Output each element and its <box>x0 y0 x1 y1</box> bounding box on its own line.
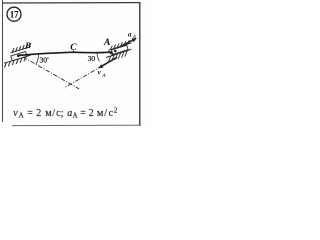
slider block B <box>11 52 27 61</box>
frame bottom border <box>12 124 140 126</box>
dash-dot axis line from A to instant centre <box>64 57 117 88</box>
dash-dot axis line from B to instant centre <box>23 57 79 89</box>
frame top border <box>2 2 140 4</box>
svg-text:30: 30 <box>88 54 96 63</box>
frame left border <box>2 0 4 122</box>
pin at B <box>17 54 20 57</box>
angle arc 30 deg at A <box>97 52 99 61</box>
acceleration vector aA head <box>132 38 137 42</box>
svg-text:30°: 30° <box>40 55 50 64</box>
frame right border <box>139 2 141 126</box>
svg-text:A: A <box>101 73 106 79</box>
slider block A <box>111 45 128 54</box>
svg-text:A: A <box>103 38 110 48</box>
hatching below lower rail at B <box>4 57 26 68</box>
guide slot upper rail at B <box>11 47 29 53</box>
svg-text:B: B <box>24 40 31 50</box>
pin at A <box>114 50 117 53</box>
angle arc 30 deg at B <box>36 55 39 64</box>
svg-text:v: v <box>98 68 102 76</box>
guide slot upper rail at A <box>109 43 132 51</box>
acceleration vector aA shaft <box>122 39 135 46</box>
hatching above upper rail at A <box>110 40 129 50</box>
guide slot lower rail at A <box>106 49 132 57</box>
midpoint tick C <box>73 50 75 52</box>
task number badge circle 17 <box>7 7 21 21</box>
guide slot lower rail at B <box>4 55 31 63</box>
hatching above upper rail at B <box>12 43 31 53</box>
velocity vector vA shaft <box>100 57 117 67</box>
svg-text:A: A <box>132 34 137 40</box>
svg-text:vA=2м/с;aA=2м/с2: vA=2м/с;aA=2м/с2 <box>13 106 118 119</box>
rod B-C-A <box>19 52 115 56</box>
velocity vector vA head <box>98 64 103 68</box>
svg-text:a: a <box>128 31 132 39</box>
hatching below lower rail at A <box>108 50 127 62</box>
svg-text:C: C <box>70 43 77 53</box>
wedge at A vertex <box>108 52 114 56</box>
svg-text:17: 17 <box>10 11 19 21</box>
